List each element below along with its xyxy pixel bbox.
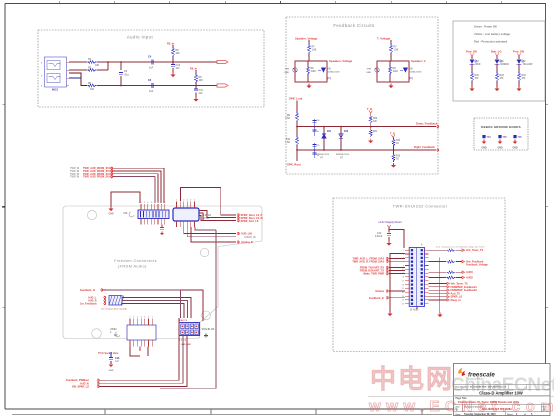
svg-text:23: 23 [402,292,404,294]
svg-text:(FRDM Audio): (FRDM Audio) [118,265,147,269]
svg-text:15: 15 [402,277,404,279]
svg-text:中电网: 中电网 [370,364,454,394]
svg-text:1uF: 1uF [149,90,154,93]
svg-text:A B C D: A B C D [179,319,187,322]
svg-text:6: 6 [158,202,159,204]
svg-text:Veh_Tuner_TX: Veh_Tuner_TX [466,249,484,252]
svg-text:Volume: Volume [375,290,384,293]
svg-text:10K: 10K [199,80,204,82]
svg-text:LIN 3A: LIN 3A [204,214,212,217]
svg-text:see section xx of vehicle amp: see section xx of vehicle amp for here [436,245,486,248]
svg-text:R13: R13 [396,156,401,158]
svg-text:1nF: 1nF [199,93,204,95]
svg-text:TWR_AUD_FROM_SVUI: TWR_AUD_FROM_SVUI [83,176,112,179]
svg-text:.01u: .01u [124,74,129,77]
svg-text:3 5W: 3 5W [204,218,210,220]
svg-text:Right_Feedback: Right_Feedback [414,145,435,149]
svg-text:J10: J10 [123,211,128,215]
svg-text:Speaker+ Voltage: Speaker+ Voltage [329,59,353,63]
svg-text:Yellow - Low battery voltage: Yellow - Low battery voltage [474,32,510,36]
svg-text:19: 19 [402,284,404,286]
svg-text:Analog_In: Analog_In [241,241,254,244]
svg-text:TWR-SVUI232 Connector: TWR-SVUI232 Connector [393,204,448,209]
svg-text:GND GND: GND GND [181,344,191,346]
svg-text:10K: 10K [95,65,100,67]
svg-text:VFB: VFB [285,69,290,71]
svg-text:AUD1: AUD1 [466,271,473,274]
svg-text:[C]: [C] [320,157,323,159]
svg-text:Batt_LO: Batt_LO [491,50,501,54]
svg-text:C14: C14 [377,232,382,235]
svg-text:4: 4 [187,199,188,202]
svg-text:1nF: 1nF [176,68,181,70]
svg-text:10K: 10K [90,89,95,91]
svg-text:VFB: VFB [367,69,372,71]
svg-text:R16: R16 [522,74,527,77]
svg-text:D10: D10 [327,68,332,71]
svg-text:0.01uF: 0.01uF [375,236,383,238]
svg-text:D11: D11 [327,131,332,133]
svg-text:Speaker- V: Speaker- V [411,59,426,63]
svg-text:29: 29 [402,303,404,305]
svg-text:Feedback_Voltage: Feedback_Voltage [466,264,488,267]
svg-text:GND: GND [497,148,502,150]
svg-text:BZX84-C6V2: BZX84-C6V2 [327,71,341,74]
svg-text:112K: 112K [311,71,317,73]
svg-text:TP4: TP4 [487,136,492,139]
svg-text:112K: 112K [393,71,399,73]
svg-text:21: 21 [402,288,404,290]
svg-text:Speaker_Voltage: Speaker_Voltage [295,37,318,41]
svg-text:5: 5 [144,317,145,319]
svg-text:GND: GND [284,72,289,74]
svg-text:see section 4 for req info: see section 4 for req info [101,308,128,311]
svg-text:GREEN: GREEN [501,64,510,66]
svg-text:R16: R16 [475,74,480,77]
svg-text:AUDIO_IN: AUDIO_IN [244,236,256,239]
svg-text:T5 IC Socket Here: T5 IC Socket Here [98,352,119,355]
svg-text:Red - Protection activated: Red - Protection activated [474,40,508,44]
svg-text:5: 5 [154,202,155,204]
svg-text:MIC2: MIC2 [52,88,59,92]
svg-text:C11: C11 [199,89,204,92]
svg-text:8: 8 [164,202,165,204]
svg-text:TWR_AUD_R_FROM_SVUI: TWR_AUD_R_FROM_SVUI [352,260,384,263]
svg-text:1.8K: 1.8K [394,50,399,52]
svg-text:7.5K: 7.5K [285,142,290,144]
svg-text:[C]: [C] [410,77,414,80]
svg-text:Lin_Feedback: Lin_Feedback [80,302,97,305]
svg-text:SDA/JD HS: SDA/JD HS [202,328,215,331]
svg-text:+3.3v Supply Down: +3.3v Supply Down [378,220,402,224]
svg-text:TP5: TP5 [503,137,508,139]
svg-text:Wake_TWR_PWR: Wake_TWR_PWR [363,273,384,276]
svg-text:GND: GND [481,148,486,150]
svg-text:3: 3 [403,254,404,256]
svg-text:Green - Power OK: Green - Power OK [474,25,497,29]
svg-text:SW_SPKR_LS: SW_SPKR_LS [72,386,89,389]
svg-text:GND: GND [109,370,114,372]
svg-text:2: 2 [133,317,134,319]
svg-text:[C]: [C] [328,77,332,80]
svg-text:Prot_ON: Prot_ON [513,50,524,54]
svg-text:7: 7 [161,202,162,204]
svg-text:1.8K: 1.8K [312,50,317,52]
svg-text:BZX84-C6V2: BZX84-C6V2 [336,153,350,156]
svg-text:Feedback Circuits: Feedback Circuits [333,23,374,28]
svg-text:T_Voltage: T_Voltage [377,37,391,41]
svg-text:7: 7 [152,317,153,319]
svg-text:Feedback_In: Feedback_In [369,297,385,300]
svg-text:R6_In: R6_In [190,67,197,71]
svg-text:R21: R21 [373,131,378,133]
svg-text:27: 27 [402,300,404,302]
svg-text:Audio Input: Audio Input [127,35,154,40]
svg-text:Feedback_In: Feedback_In [80,289,96,292]
svg-text:U5/8A: U5/8A [110,328,117,331]
svg-text:1: 1 [130,317,131,319]
svg-text:D12: D12 [344,131,349,133]
svg-text:www.ECNet.com: www.ECNet.com [368,398,554,415]
svg-text:SPKR_Gnd_LS: SPKR_Gnd_LS [241,220,259,223]
svg-text:R12: R12 [396,140,401,142]
svg-text:C10: C10 [176,64,181,67]
svg-text:YELLOW: YELLOW [523,64,534,66]
svg-text:C13: C13 [115,357,120,360]
svg-text:R20: R20 [373,118,378,120]
svg-text:1K: 1K [396,159,399,161]
svg-text:1uF: 1uF [115,361,120,363]
svg-text:DEBUG GROUND HOOKS: DEBUG GROUND HOOKS [481,125,520,129]
svg-text:Freedom Connectors: Freedom Connectors [114,259,157,263]
svg-text:10K: 10K [176,53,181,55]
svg-text:BZX84-C6V2: BZX84-C6V2 [316,153,330,156]
svg-text:3: 3 [183,200,184,202]
svg-text:7: 7 [403,261,404,263]
svg-text:ChinaECNet: ChinaECNet [451,375,554,396]
svg-text:AUD2: AUD2 [466,277,473,280]
svg-text:R10: R10 [286,138,291,141]
svg-text:R5_In: R5_In [167,42,174,46]
svg-text:Sleep_In: Sleep_In [451,299,462,302]
svg-text:17: 17 [402,281,404,283]
svg-text:5: 5 [190,200,191,202]
svg-text:D10: D10 [409,68,414,71]
svg-text:6: 6 [194,200,195,202]
svg-text:BZX84-C6V2: BZX84-C6V2 [409,71,423,74]
svg-text:TP6: TP6 [518,137,523,139]
svg-text:3: 3 [137,317,138,319]
svg-text:7.5K: 7.5K [285,118,290,120]
svg-text:1uF: 1uF [149,67,154,70]
svg-text:[C]: [C] [340,157,343,159]
svg-text:1K: 1K [396,143,399,145]
svg-text:R16: R16 [500,74,505,77]
svg-text:SPK_Rout: SPK_Rout [287,163,301,167]
svg-text:GND: GND [512,148,517,150]
svg-text:1: 1 [403,250,404,252]
svg-text:1: 1 [141,202,142,204]
svg-text:4: 4 [151,201,152,204]
svg-text:T_B: T_B [367,107,372,111]
svg-text:RED: RED [476,64,481,66]
svg-text:Pow_OK: Pow_OK [466,50,477,54]
svg-text:GND: GND [108,214,113,216]
svg-text:3: 3 [147,202,148,204]
svg-text:SPK_Lout: SPK_Lout [289,97,302,101]
svg-text:4: 4 [141,316,142,319]
svg-text:TWR_IN: TWR_IN [70,176,79,179]
svg-text:1: 1 [176,200,177,202]
svg-text:6: 6 [148,317,149,319]
svg-text:Down_Feedback: Down_Feedback [416,122,438,126]
svg-text:2: 2 [144,202,145,204]
svg-text:GND: GND [366,72,371,74]
svg-text:T_B: T_B [390,132,395,136]
